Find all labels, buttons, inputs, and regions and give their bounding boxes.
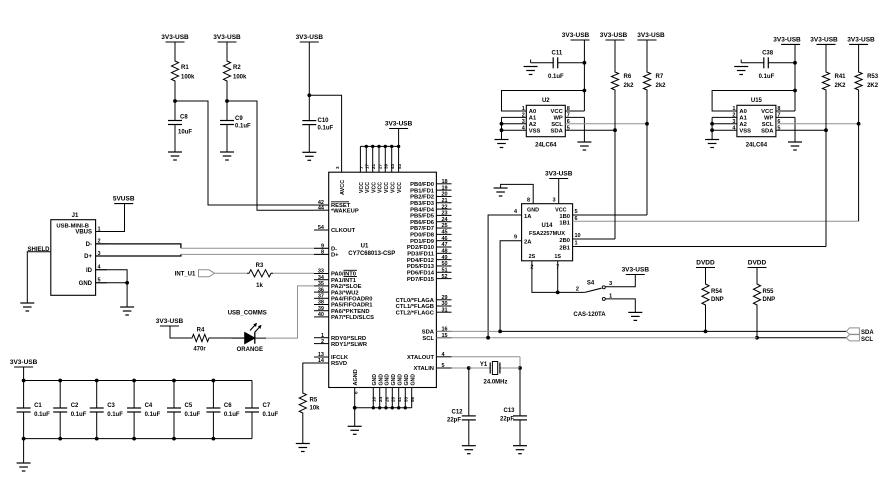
wire R1 to C8 junction	[174, 83, 176, 121]
resistor R54 DNP	[702, 268, 724, 308]
wire R2 to C9 junction	[226, 83, 228, 121]
wire R4 to LED	[211, 337, 245, 339]
svg-text:C11: C11	[552, 50, 563, 56]
svg-text:C10: C10	[318, 118, 330, 124]
svg-text:6: 6	[353, 391, 358, 394]
node XTALIN junction	[467, 366, 471, 370]
wire INT_U1 flag to R3	[215, 272, 248, 274]
svg-text:2: 2	[321, 339, 324, 345]
svg-text:39: 39	[384, 163, 389, 169]
svg-text:9: 9	[321, 244, 324, 250]
svg-text:C9: C9	[235, 116, 243, 122]
net flag SDA	[846, 328, 874, 336]
svg-text:Y1: Y1	[480, 362, 488, 368]
svg-text:VCC: VCC	[390, 182, 396, 193]
U14 right pin 6 1B1 wire to U15 SCL	[573, 124, 859, 222]
svg-text:1B0: 1B0	[559, 214, 570, 220]
power 3V3-USB net label (bottom-left)	[10, 359, 38, 367]
svg-text:0.1uF: 0.1uF	[263, 412, 279, 418]
wire U2 SDA	[565, 129, 615, 131]
U1 left pin 44 *WAKEUP	[314, 205, 359, 214]
svg-text:WP: WP	[553, 116, 562, 122]
svg-text:CY7C68013-CSP: CY7C68013-CSP	[348, 251, 395, 257]
svg-text:VCC: VCC	[378, 182, 384, 193]
resistor R6 2k2	[611, 40, 634, 92]
svg-text:5: 5	[575, 209, 578, 215]
svg-text:30: 30	[442, 301, 448, 307]
U2 left pin 1 A0	[502, 106, 537, 115]
svg-text:VCC: VCC	[551, 109, 564, 115]
power 3V3-USB net label (above U1 VCC pins)	[385, 121, 413, 129]
power 3V3-USB net label (at S4)	[622, 267, 650, 275]
svg-text:5: 5	[442, 363, 445, 369]
svg-text:21: 21	[371, 163, 376, 169]
svg-text:VCC: VCC	[365, 182, 371, 193]
U1 left pin 35 PA2/*SLOE	[314, 281, 362, 290]
svg-text:CAS-120TA: CAS-120TA	[573, 312, 606, 318]
svg-text:PB5/FD5: PB5/FD5	[410, 214, 435, 220]
svg-text:PB3/FD3: PB3/FD3	[410, 201, 435, 207]
capacitor C4 0.1uF	[127, 381, 161, 439]
svg-text:U15: U15	[751, 98, 763, 104]
svg-text:22pF: 22pF	[500, 417, 514, 423]
wire R55 to SCL bus	[756, 307, 758, 338]
svg-text:34: 34	[318, 275, 325, 281]
ground below U15 WP	[788, 142, 802, 150]
svg-text:1k: 1k	[256, 283, 263, 289]
svg-text:A0: A0	[739, 109, 746, 115]
svg-text:7: 7	[556, 265, 559, 271]
svg-text:27: 27	[377, 163, 382, 169]
svg-text:USB_COMMS: USB_COMMS	[228, 311, 267, 317]
svg-text:0.1uF: 0.1uF	[224, 412, 240, 418]
svg-text:37: 37	[318, 294, 324, 300]
svg-text:VBUS: VBUS	[75, 230, 92, 236]
ground left of C11	[524, 67, 538, 75]
wire R53 to SCL	[858, 92, 860, 124]
svg-text:DVDD: DVDD	[748, 260, 767, 267]
svg-text:C12: C12	[451, 410, 463, 416]
wire R3 to U1 PA0 pin 33	[273, 272, 314, 274]
svg-text:R53: R53	[867, 74, 879, 80]
wire U2 A0 tie to VCC	[502, 91, 585, 112]
wire 3V3-USB to VCC rail	[398, 129, 400, 147]
svg-text:AGND: AGND	[353, 369, 359, 385]
wire 3V3-USB to R4	[170, 326, 190, 338]
svg-text:R3: R3	[256, 263, 264, 269]
svg-text:D+: D+	[84, 254, 92, 260]
svg-text:10: 10	[372, 396, 377, 402]
wire R7 to SCL	[646, 92, 648, 124]
wire C8 to ground	[174, 125, 176, 153]
IC U2 24LC64 body	[526, 98, 565, 149]
svg-text:3V3-USB: 3V3-USB	[296, 34, 324, 41]
ground below cap bank	[17, 463, 31, 471]
svg-text:C7: C7	[263, 403, 271, 409]
U1 right pin 25 PB7/FD7	[410, 223, 451, 232]
U14 left pin 9 2A wire to SDA bus	[500, 235, 521, 332]
svg-text:C3: C3	[107, 403, 115, 409]
svg-text:3: 3	[732, 119, 735, 125]
node RESET junction at R1/C8	[173, 99, 177, 103]
svg-text:CTL2/*FLAGC: CTL2/*FLAGC	[396, 310, 435, 316]
capacitor C2 0.1uF	[53, 381, 87, 439]
U14 right pin 5 1B0 wire to U2 SCL	[573, 124, 647, 215]
svg-text:R6: R6	[624, 74, 632, 80]
wire U15 A0 tie to VCC	[712, 91, 795, 112]
U14 bottom pin 2 2S wire	[530, 261, 557, 293]
wire S4 pin 1 to ground	[606, 299, 636, 313]
U14 right pin 1 2B1 wire to U15 SDA	[573, 130, 826, 246]
svg-text:20: 20	[442, 192, 448, 198]
wire U15 VCC pin stub	[776, 110, 795, 112]
wire U1 RSVD pin 14 to R5	[303, 363, 329, 391]
capacitor C12 22pF	[447, 368, 476, 446]
svg-text:PB7/FD7: PB7/FD7	[410, 226, 434, 232]
svg-text:PA4/FIFOADR0: PA4/FIFOADR0	[331, 297, 372, 303]
resistor R3 1k	[247, 263, 273, 289]
wire R6 to SDA	[614, 92, 616, 130]
svg-text:A1: A1	[529, 116, 537, 122]
svg-text:DVDD: DVDD	[696, 260, 715, 267]
svg-text:17: 17	[365, 163, 370, 169]
svg-text:C8: C8	[180, 115, 188, 121]
U1 left pin 8 D+	[314, 250, 339, 259]
U1 left pin 39 PA6/*PKTEND	[314, 306, 370, 315]
svg-text:22pF: 22pF	[447, 418, 461, 424]
U1 right pin 5 XTALIN	[413, 363, 451, 372]
svg-text:2K2: 2K2	[835, 83, 847, 89]
svg-text:GND: GND	[527, 208, 539, 214]
U1 bottom pin 53 GND	[404, 374, 410, 408]
svg-text:A2: A2	[739, 122, 746, 128]
U2 right pin 6 SCL	[551, 119, 570, 128]
wire junction to U1 AVCC pin 3	[309, 95, 341, 172]
U1 left pin 38 PA5/FIFOADR1	[314, 300, 373, 309]
power 3V3-USB net label (above R6)	[600, 32, 628, 40]
ground below C9	[220, 152, 234, 160]
svg-text:3V3-USB: 3V3-USB	[545, 171, 573, 178]
svg-text:RSVD: RSVD	[331, 361, 347, 367]
svg-text:51: 51	[442, 267, 448, 273]
svg-text:46: 46	[442, 236, 448, 242]
svg-text:PB0/FD0: PB0/FD0	[410, 182, 434, 188]
U1 right pin 18 PB0/FD0	[410, 179, 451, 188]
svg-text:2K2: 2K2	[867, 83, 879, 89]
svg-text:R7: R7	[656, 74, 664, 80]
svg-text:24LC64: 24LC64	[746, 143, 768, 149]
junction dots cap bank top rail	[22, 379, 216, 383]
wire U15 WP to ground	[776, 117, 795, 142]
svg-text:52: 52	[442, 274, 448, 280]
svg-text:29: 29	[442, 295, 448, 301]
U1 top pin 7 VCC	[359, 166, 365, 193]
svg-text:CTL0/*FLAGA: CTL0/*FLAGA	[396, 298, 435, 304]
svg-text:PD6/FD14: PD6/FD14	[407, 270, 435, 276]
power 3V3-USB net label (above U15 VCC)	[773, 36, 801, 44]
U1 left pin 40 PA7/*FLD/SLCS	[314, 312, 374, 321]
U1 left pin 2 RDY1/*SLWR	[314, 339, 368, 348]
svg-text:2B1: 2B1	[559, 245, 570, 251]
svg-text:SDA: SDA	[551, 128, 564, 134]
svg-text:3V3-USB: 3V3-USB	[161, 34, 189, 41]
svg-text:39: 39	[318, 306, 324, 312]
node 1S/2S junction	[556, 291, 560, 295]
ground below U2 WP	[577, 142, 591, 150]
svg-text:53: 53	[397, 163, 402, 169]
svg-text:GND: GND	[385, 374, 391, 386]
svg-text:3V3-USB: 3V3-USB	[562, 32, 590, 39]
svg-text:A0: A0	[529, 109, 536, 115]
svg-text:7: 7	[359, 166, 364, 169]
power 3V3-USB net label (above U2 VCC)	[562, 32, 590, 40]
svg-text:2: 2	[522, 113, 525, 119]
svg-text:1A: 1A	[524, 214, 532, 220]
svg-text:AVCC: AVCC	[340, 180, 346, 195]
node J1 ID/GND junction	[125, 281, 129, 285]
svg-text:0.1uF: 0.1uF	[107, 412, 123, 418]
wire 5VUSB to J1 VBUS pin 1	[96, 204, 125, 232]
ground below C8	[168, 152, 182, 160]
connector J1 USB-MINI-B	[51, 213, 107, 295]
svg-text:S4: S4	[587, 280, 595, 286]
svg-text:3V3-USB: 3V3-USB	[213, 34, 241, 41]
wire SHIELD to ground	[27, 252, 51, 303]
svg-text:0.1uF: 0.1uF	[759, 74, 775, 80]
svg-text:22: 22	[442, 204, 448, 210]
svg-text:FSA2257MUX: FSA2257MUX	[529, 231, 565, 237]
svg-text:PD0/FD8: PD0/FD8	[410, 233, 435, 239]
junction dots on VCC rail	[365, 145, 401, 148]
svg-text:C5: C5	[185, 403, 193, 409]
capacitor C5 0.1uF	[167, 381, 201, 439]
capacitor C8 10uF	[168, 115, 192, 136]
resistor R53 2K2	[855, 44, 879, 92]
wire U15 SCL	[776, 123, 859, 125]
U1 right pin 50 PD5/FD13	[407, 261, 452, 270]
svg-text:XTALOUT: XTALOUT	[407, 355, 434, 361]
node U15 A0 loop junction	[793, 89, 797, 93]
U1 left pin 42 RESET	[314, 200, 351, 209]
node R7 SCL junction	[645, 122, 649, 126]
power 3V3-USB net label (above R4)	[156, 318, 184, 326]
svg-text:26: 26	[384, 396, 389, 402]
node C11 junction	[583, 61, 587, 65]
svg-text:VCC: VCC	[397, 182, 403, 193]
U1 right pin 22 PB4/FD4	[410, 204, 451, 213]
svg-text:3V3-USB: 3V3-USB	[637, 32, 665, 39]
U1 right pin 48 PD3/FD11	[407, 249, 451, 258]
svg-text:VCC: VCC	[761, 109, 774, 115]
svg-text:XTALIN: XTALIN	[413, 366, 434, 372]
U1 left pin 36 PA3/*WU2	[314, 287, 359, 296]
ground below S4	[628, 312, 642, 320]
svg-text:38: 38	[318, 300, 324, 306]
svg-text:C13: C13	[503, 408, 515, 414]
svg-text:U14: U14	[541, 223, 553, 229]
svg-text:2B0: 2B0	[559, 238, 570, 244]
svg-text:0.1uF: 0.1uF	[145, 412, 161, 418]
svg-text:1S: 1S	[554, 254, 561, 260]
svg-text:VSS: VSS	[529, 128, 541, 134]
svg-text:0.1uF: 0.1uF	[318, 126, 334, 132]
wire cap bank bottom rail	[24, 438, 252, 440]
svg-text:R5: R5	[310, 398, 318, 404]
svg-text:2k2: 2k2	[656, 83, 667, 89]
svg-text:C4: C4	[145, 403, 153, 409]
wire C10 to ground	[308, 125, 310, 153]
junction dots GND rail	[372, 406, 407, 409]
svg-text:R2: R2	[233, 65, 241, 71]
U15 left pin 1 A0	[712, 106, 747, 115]
svg-text:0.1uF: 0.1uF	[34, 412, 50, 418]
U1 right pin 51 PD6/FD14	[407, 267, 452, 276]
wire 3V3-USB to C10	[308, 42, 310, 121]
svg-text:19: 19	[442, 185, 448, 191]
U1 right pin 16 SDA	[422, 327, 452, 336]
U1 bottom pin 10 GND	[372, 374, 378, 408]
svg-text:SCL: SCL	[762, 122, 774, 128]
wire R5 to ground	[302, 415, 304, 444]
U2 left pin 3 A2	[502, 119, 537, 128]
svg-text:44: 44	[318, 205, 325, 211]
svg-text:2: 2	[576, 287, 579, 293]
U14 left pin 4 1A wire to SCL bus	[488, 209, 521, 338]
resistor R41 2K2	[822, 44, 846, 92]
svg-text:43: 43	[390, 163, 395, 169]
svg-text:SDA: SDA	[861, 330, 874, 336]
U1 right pin 45 PD0/FD8	[410, 230, 451, 239]
svg-text:5VUSB: 5VUSB	[113, 196, 135, 203]
svg-text:0.1uF: 0.1uF	[185, 412, 201, 418]
svg-text:41: 41	[397, 396, 402, 402]
svg-text:D-: D-	[331, 247, 337, 253]
U1 left pin 9 D-	[314, 244, 337, 253]
svg-text:49: 49	[442, 255, 448, 261]
svg-text:3V3-USB: 3V3-USB	[10, 359, 38, 366]
capacitor C38 0.1uF	[741, 50, 795, 80]
svg-text:R55: R55	[763, 289, 775, 295]
wire cap bank top rail	[24, 380, 252, 382]
U1 top pin 27 VCC	[377, 163, 383, 193]
wire U2 A1/A2/VSS to ground	[500, 117, 504, 139]
wire C9 to ground	[226, 125, 228, 153]
node AVCC junction at C10	[307, 93, 311, 97]
svg-text:56: 56	[410, 396, 415, 402]
svg-text:GND: GND	[372, 374, 378, 386]
U1 right pin 47 PD2/FD10	[407, 242, 452, 251]
IC U14 FSA2257MUX body	[522, 204, 573, 261]
capacitor C11 0.1uF	[531, 50, 585, 80]
svg-text:C6: C6	[224, 403, 232, 409]
U1 left pin 37 PA4/FIFOADR0	[314, 294, 372, 303]
svg-text:SCL: SCL	[551, 122, 563, 128]
wire U1 XTALOUT to crystal right	[452, 357, 521, 368]
svg-text:PD5/FD13: PD5/FD13	[407, 264, 435, 270]
svg-text:R4: R4	[197, 328, 205, 334]
svg-text:33: 33	[318, 269, 324, 275]
U15 right pin 5 SDA	[761, 125, 780, 134]
svg-text:100k: 100k	[181, 75, 195, 81]
svg-text:U1: U1	[361, 243, 369, 249]
wire U2 VCC pin stub	[565, 110, 584, 112]
resistor R55 DNP	[753, 268, 775, 308]
wire 3V3-USB to U15 VCC pin 8	[794, 44, 796, 111]
U15 left pin 3 A2	[712, 119, 747, 128]
U1 top pin 39 VCC	[384, 163, 390, 193]
svg-text:2: 2	[732, 113, 735, 119]
resistor R2 100k	[223, 42, 247, 83]
svg-text:SDA: SDA	[422, 330, 435, 336]
power 3V3-USB net label (above C10)	[296, 34, 324, 42]
svg-text:23: 23	[442, 211, 448, 217]
svg-text:ORANGE: ORANGE	[237, 347, 263, 353]
U1 bottom pin 26 GND	[384, 374, 390, 408]
svg-text:3V3-USB: 3V3-USB	[622, 267, 650, 274]
node 2A on SDA bus	[498, 330, 502, 334]
U1 right pin 4 XTALOUT	[407, 352, 451, 361]
wire LED to U1 PA2 pin 35	[266, 286, 314, 338]
svg-text:1: 1	[575, 241, 578, 247]
svg-text:D-: D-	[86, 242, 92, 248]
svg-text:GND: GND	[410, 374, 416, 386]
wire cap bank to ground	[23, 439, 25, 463]
svg-text:PA5/FIFOADR1: PA5/FIFOADR1	[331, 303, 373, 309]
wire R54 to SDA bus	[705, 307, 707, 331]
ground below SHIELD	[20, 303, 34, 311]
junction dots cap bank bottom rail	[22, 437, 216, 441]
wire U2 SCL	[565, 123, 647, 125]
U1 top pin 53 VCC	[397, 163, 403, 193]
U1 right pin 24 PB6/FD6	[410, 217, 451, 226]
wire R41 to SDA	[825, 92, 827, 130]
svg-text:PB1/FD1: PB1/FD1	[410, 188, 435, 194]
svg-text:U2: U2	[542, 98, 550, 104]
ground below J1	[120, 307, 134, 315]
svg-text:C1: C1	[34, 403, 42, 409]
svg-text:21: 21	[442, 198, 448, 204]
svg-text:DNP: DNP	[763, 297, 776, 303]
U1 bottom pin 41 GND	[397, 374, 403, 408]
U1 bottom pin 56 GND	[410, 374, 416, 408]
node U2 A0 loop junction	[583, 89, 587, 93]
U1 right pin 52 PD7/FD15	[407, 274, 452, 283]
svg-text:GND: GND	[79, 281, 93, 287]
svg-text:6: 6	[575, 216, 578, 222]
wire U15 SDA	[776, 129, 826, 131]
U2 right pin 5 SDA	[551, 125, 570, 134]
node XTALOUT junction	[518, 366, 522, 370]
U1 bottom pin 24 GND	[378, 374, 384, 408]
svg-text:PD4/FD12: PD4/FD12	[407, 258, 434, 264]
svg-text:3V3-USB: 3V3-USB	[810, 36, 838, 43]
U1 right pin 19 PB1/FD1	[410, 185, 451, 194]
capacitor C13 22pF	[500, 368, 527, 446]
U1 left pin 14 RSVD	[314, 358, 347, 367]
U1 left pin 1 RDY0/*SLRD	[314, 333, 366, 342]
svg-text:A1: A1	[739, 116, 747, 122]
svg-text:48: 48	[442, 249, 448, 255]
capacitor C3 0.1uF	[90, 381, 124, 439]
svg-text:PA6/*PKTEND: PA6/*PKTEND	[331, 309, 370, 315]
svg-text:0.1uF: 0.1uF	[548, 74, 564, 80]
svg-text:PD1/FD9: PD1/FD9	[410, 239, 435, 245]
capacitor C9 0.1uF	[220, 116, 251, 130]
svg-text:10uF: 10uF	[178, 130, 192, 136]
svg-text:WP: WP	[764, 116, 773, 122]
U14 top pin 3 VCC wire	[552, 179, 558, 204]
svg-text:2A: 2A	[524, 240, 532, 246]
